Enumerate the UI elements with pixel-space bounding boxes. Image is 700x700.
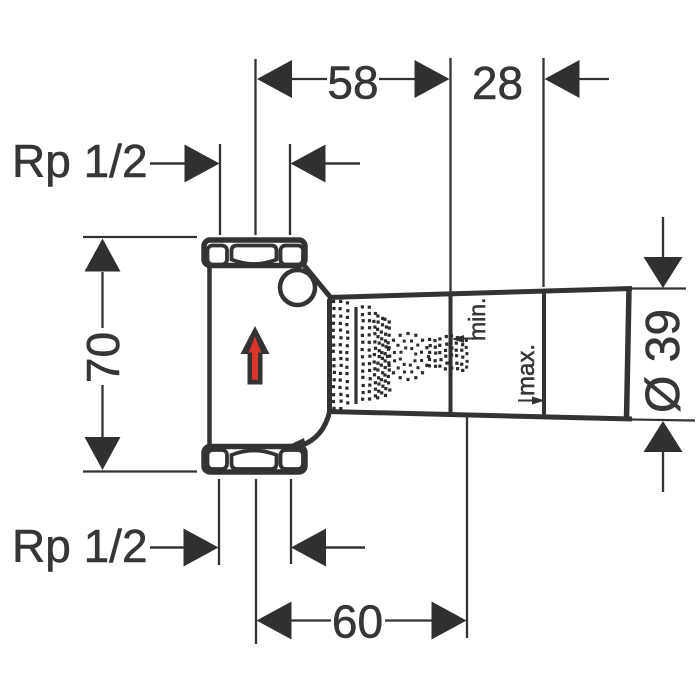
body shoulder bottom fillet [287, 438, 306, 447]
valve body left edge [207, 266, 212, 447]
label Rp 1/2 top with leader [12, 135, 220, 187]
svg-text:70: 70 [77, 332, 129, 383]
body shoulder bottom curve [300, 410, 330, 446]
cartridge left face edge [327, 299, 332, 412]
cartridge center line [354, 307, 357, 404]
arrow bottom thread right [291, 529, 365, 567]
dimension 60 [257, 417, 468, 648]
wire: extension line max plane above body [542, 58, 544, 287]
svg-text:Rp 1/2: Rp 1/2 [12, 135, 148, 187]
svg-text:Ø 39: Ø 39 [637, 309, 690, 413]
wire: extension line top thread right [289, 144, 291, 235]
body shoulder top diagonal [303, 264, 331, 298]
red flow arrow [241, 326, 270, 385]
svg-text:max.: max. [513, 344, 540, 396]
body ring lug [280, 270, 315, 305]
wire: extension line body axis top [254, 59, 256, 235]
divider max plane [542, 290, 546, 417]
svg-text:60: 60 [332, 596, 383, 648]
wire: extension line bottom thread left [218, 479, 220, 565]
housing right end cap [627, 289, 630, 420]
dimension diameter 39 [637, 217, 690, 492]
dimension 58 [257, 57, 450, 109]
dimension 70 [77, 237, 197, 472]
housing bottom edge [328, 412, 632, 420]
cartridge stipple texture [332, 300, 469, 410]
housing top edge [328, 289, 632, 298]
svg-text:28: 28 [472, 57, 523, 109]
wire: extension line top thread left [219, 144, 221, 235]
union nut top [204, 240, 305, 266]
wire: extension line bottom axis [255, 479, 257, 644]
svg-text:min.: min. [464, 298, 490, 341]
dimension 28 [472, 57, 609, 109]
arrow top thread right [291, 145, 361, 183]
wire: extension line bottom thread right [290, 479, 292, 564]
svg-text:Rp 1/2: Rp 1/2 [12, 520, 148, 572]
wire: extension line min plane above body [449, 58, 451, 292]
divider min plane [449, 295, 453, 414]
wire: extension of housing bottom edge [632, 420, 695, 421]
label max with leader [513, 344, 545, 405]
label min with leader [452, 298, 491, 343]
label Rp 1/2 bottom with leader [12, 520, 219, 572]
wire: extension of housing top edge [632, 287, 686, 289]
svg-text:58: 58 [327, 57, 378, 109]
union nut bottom [204, 447, 305, 473]
